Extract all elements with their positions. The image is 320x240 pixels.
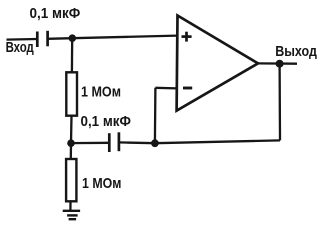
svg-text:Вход: Вход bbox=[6, 40, 34, 56]
svg-text:0,1 мкФ: 0,1 мкФ bbox=[81, 113, 132, 130]
svg-text:0,1 мкФ: 0,1 мкФ bbox=[30, 5, 81, 22]
svg-text:1 МОм: 1 МОм bbox=[81, 83, 121, 100]
svg-text:1 МОм: 1 МОм bbox=[82, 175, 121, 192]
svg-text:Выход: Выход bbox=[275, 44, 317, 60]
